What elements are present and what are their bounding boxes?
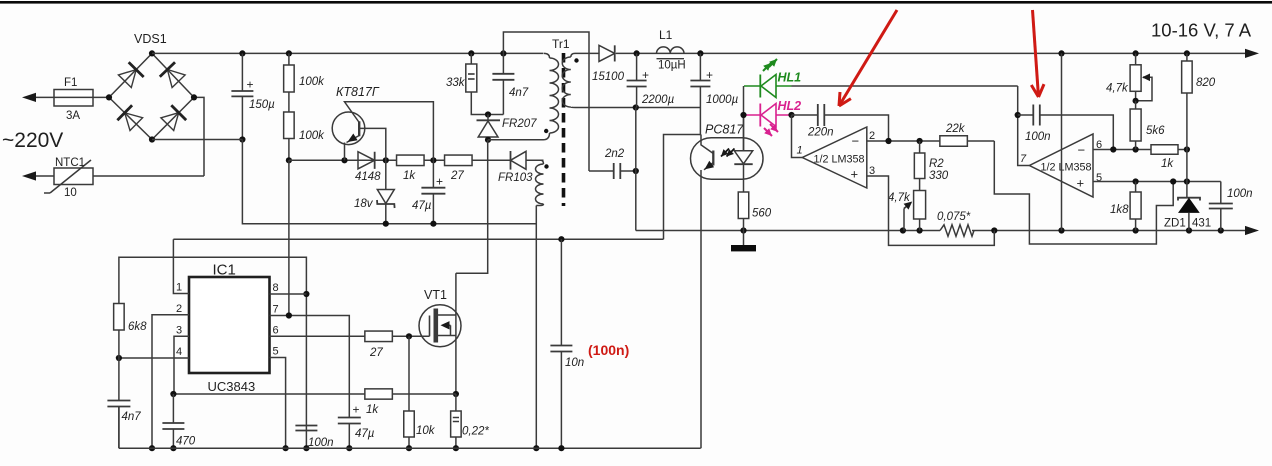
svg-text:0,075*: 0,075* <box>937 211 971 223</box>
svg-text:+: + <box>436 175 443 189</box>
svg-text:220n: 220n <box>807 127 834 139</box>
svg-text:3A: 3A <box>66 110 80 122</box>
svg-text:22k: 22k <box>945 123 966 135</box>
svg-text:L1: L1 <box>659 28 673 42</box>
svg-text:HL2: HL2 <box>778 99 802 113</box>
svg-text:3: 3 <box>176 324 182 336</box>
svg-text:−: − <box>852 134 860 149</box>
svg-text:2: 2 <box>176 303 182 315</box>
svg-text:8: 8 <box>273 282 279 294</box>
svg-text:10: 10 <box>64 187 77 199</box>
svg-text:0,22*: 0,22* <box>462 426 489 438</box>
svg-text:560: 560 <box>752 208 772 220</box>
svg-text:VT1: VT1 <box>424 288 447 302</box>
svg-text:6: 6 <box>273 324 279 336</box>
svg-text:10n: 10n <box>565 357 584 369</box>
svg-text:(100n): (100n) <box>588 342 629 358</box>
svg-text:UC3843: UC3843 <box>208 379 256 394</box>
svg-text:7: 7 <box>273 304 279 316</box>
svg-text:4,7k: 4,7k <box>1106 83 1129 95</box>
svg-text:1k: 1k <box>403 170 416 182</box>
svg-text:47µ: 47µ <box>355 428 375 440</box>
svg-text:4n7: 4n7 <box>122 411 142 423</box>
svg-text:1: 1 <box>797 145 803 157</box>
svg-text:100k: 100k <box>299 76 325 88</box>
svg-text:PC817: PC817 <box>705 123 744 137</box>
svg-text:100n: 100n <box>1025 131 1051 143</box>
svg-text:F1: F1 <box>64 77 77 89</box>
svg-text:КТ817Г: КТ817Г <box>336 85 380 99</box>
svg-text:100k: 100k <box>299 130 325 142</box>
svg-text:NTC1: NTC1 <box>55 157 85 169</box>
svg-text:27: 27 <box>369 347 383 359</box>
svg-text:820: 820 <box>1196 77 1216 89</box>
svg-text:~220V: ~220V <box>2 129 63 152</box>
svg-text:+: + <box>353 403 360 417</box>
svg-text:+: + <box>706 68 713 82</box>
svg-text:FR207: FR207 <box>502 118 537 130</box>
svg-text:−: − <box>1078 143 1086 158</box>
svg-text:15100: 15100 <box>592 71 625 83</box>
svg-text:4148: 4148 <box>355 171 381 183</box>
svg-text:FR103: FR103 <box>498 172 533 184</box>
svg-text:18v: 18v <box>354 198 374 210</box>
svg-text:33k: 33k <box>446 77 466 89</box>
svg-text:4n7: 4n7 <box>509 87 529 99</box>
svg-text:5k6: 5k6 <box>1146 125 1165 137</box>
svg-text:+: + <box>247 78 254 92</box>
svg-text:2200µ: 2200µ <box>641 94 675 106</box>
svg-text:1/2 LM358: 1/2 LM358 <box>814 154 865 166</box>
svg-text:+: + <box>642 68 649 82</box>
svg-text:100n: 100n <box>1227 188 1253 200</box>
svg-text:27: 27 <box>450 170 464 182</box>
svg-text:+: + <box>1077 176 1085 191</box>
svg-text:1k8: 1k8 <box>1110 204 1129 216</box>
svg-text:2: 2 <box>869 130 875 142</box>
svg-text:Tr1: Tr1 <box>552 37 570 51</box>
svg-text:47µ: 47µ <box>412 200 432 212</box>
svg-text:ZD1: ZD1 <box>1164 218 1186 230</box>
svg-text:HL1: HL1 <box>778 71 802 85</box>
svg-text:150µ: 150µ <box>249 99 275 111</box>
svg-text:VDS1: VDS1 <box>134 32 167 46</box>
svg-text:5: 5 <box>273 346 279 358</box>
svg-text:1000µ: 1000µ <box>706 94 739 106</box>
svg-text:100n: 100n <box>308 437 334 449</box>
svg-text:+: + <box>851 167 859 182</box>
svg-text:470: 470 <box>176 436 196 448</box>
svg-text:R2: R2 <box>929 158 944 170</box>
svg-text:1/2 LM358: 1/2 LM358 <box>1041 162 1092 174</box>
svg-text:1: 1 <box>176 282 182 294</box>
svg-text:4,7k: 4,7k <box>888 192 911 204</box>
svg-text:431: 431 <box>1192 218 1211 230</box>
svg-text:1k: 1k <box>366 404 379 416</box>
svg-text:330: 330 <box>929 170 949 182</box>
svg-text:IC1: IC1 <box>213 262 236 279</box>
svg-text:1k: 1k <box>1161 158 1174 170</box>
svg-text:6k8: 6k8 <box>128 321 147 333</box>
svg-text:7: 7 <box>1020 153 1027 165</box>
svg-text:2n2: 2n2 <box>604 148 625 160</box>
svg-text:10k: 10k <box>416 425 436 437</box>
svg-text:10-16 V, 7 A: 10-16 V, 7 A <box>1151 20 1252 41</box>
svg-text:10µH: 10µH <box>658 60 686 72</box>
svg-text:3: 3 <box>869 165 875 177</box>
svg-text:4: 4 <box>176 346 182 358</box>
